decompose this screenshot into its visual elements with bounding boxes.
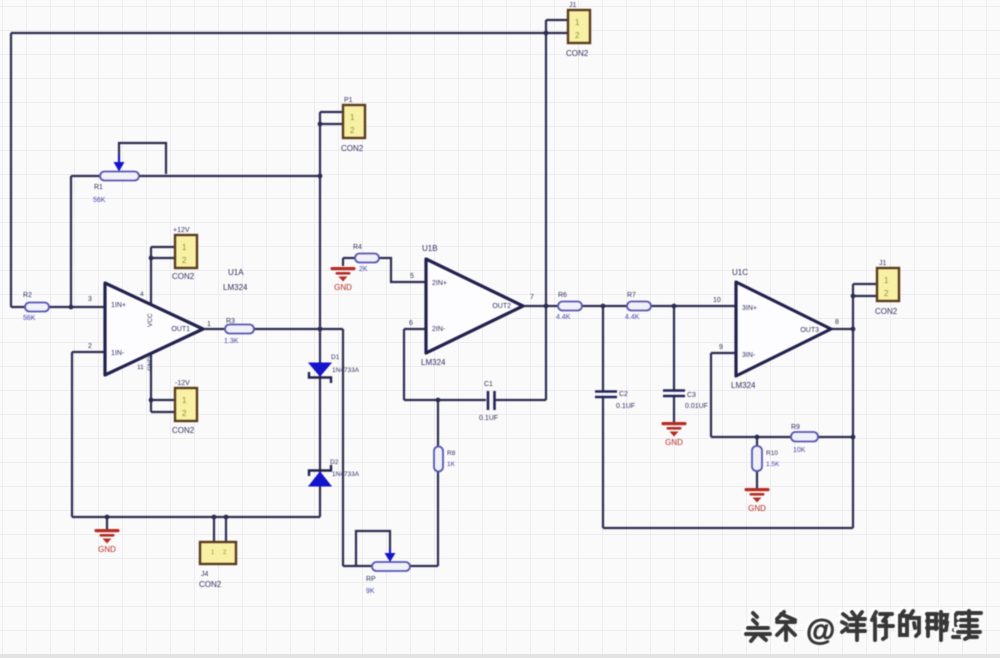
svg-text:@: @ [806,614,835,647]
junction -12V pin1 [149,398,154,403]
wire C2 bottom to rail [602,397,604,528]
svg-text:R4: R4 [353,244,362,251]
wire R4 right to U1B pin5 [379,258,426,282]
wire long vertical J1top to feedback [545,20,547,400]
svg-text:CON2: CON2 [199,580,222,589]
svg-text:6: 6 [409,320,413,327]
wire pot R1 left terminal [71,175,100,177]
svg-text:4.4K: 4.4K [556,314,571,321]
svg-text:R1: R1 [94,184,103,191]
wire U1B feedback bottom to C1 [404,399,486,401]
wire P1 connector pin2 [320,123,343,125]
svg-text:+12V: +12V [173,227,190,234]
svg-text:1: 1 [207,321,211,328]
svg-text:1IN+: 1IN+ [111,302,126,309]
op-amp U1C LM324 [713,268,839,390]
svg-text:CON2: CON2 [341,144,364,153]
svg-text:3IN-: 3IN- [742,352,756,359]
connector P2 +12V CON2 [172,227,197,281]
svg-text:4.4K: 4.4K [625,314,640,321]
svg-text:OUT1: OUT1 [171,326,190,333]
junction R10 / feedback [755,435,760,440]
svg-text:1: 1 [182,396,187,405]
svg-text:J4: J4 [201,571,209,578]
svg-text:GND: GND [665,438,683,447]
svg-text:OUT2: OUT2 [492,303,511,310]
diode D2 1N4733A zener [309,459,360,486]
op-amp U1A LM324 [88,268,248,375]
svg-text:8: 8 [835,319,839,326]
svg-text:VCC: VCC [147,313,154,327]
svg-text:C1: C1 [484,381,493,388]
wire gnd stem left [106,517,108,529]
svg-text:3: 3 [88,296,92,303]
svg-text:3IN+: 3IN+ [742,305,757,312]
svg-text:R3: R3 [226,318,235,325]
junction J4 pin2 [224,515,229,520]
svg-text:R7: R7 [627,292,636,299]
svg-text:1: 1 [884,276,889,285]
wire C3 branch down [673,306,675,390]
svg-text:LM324: LM324 [223,283,248,292]
wire J1 right connector pin1 [853,283,877,285]
svg-text:R8: R8 [447,450,456,457]
wire J1 right connector pin2 [853,295,877,297]
svg-text:OUT3: OUT3 [800,327,819,334]
junction top rail / J1 pins [544,31,549,36]
wire GND to R4 left [343,258,355,266]
svg-text:D2: D2 [330,459,339,466]
wire R10 top stem [756,437,758,446]
ground below R10 [745,488,770,513]
wire vertical RP to feedback node [437,400,439,566]
svg-text:1K: 1K [447,461,456,468]
junction R7-U1C / C3 [672,304,677,309]
wire U1A pin11 to -12V [150,354,152,412]
op-amp U1B LM324 [409,244,534,367]
svg-text:-12V: -12V [175,380,190,387]
svg-text:D1: D1 [331,354,340,361]
resistor R7 4.4K [625,292,651,321]
wire R3 node to vertical branch [320,328,343,330]
wire RP wiper loop [356,531,390,566]
svg-text:2: 2 [575,31,580,40]
svg-text:J1: J1 [569,2,577,9]
svg-text:1: 1 [350,113,355,122]
resistor R2 56K input [23,292,49,322]
wire U1C feedback bottom through R9 [711,436,853,438]
svg-text:9K: 9K [366,588,375,595]
wire node A vertical from pot left to pin3 net [70,176,72,307]
resistor R9 10K [791,424,818,454]
wire U1C feedback left down [710,353,712,437]
wire output vertical to J1 [852,284,854,528]
wire +12V supply to U1A pin4 [150,247,152,304]
svg-text:J1: J1 [879,260,887,267]
wire bottom rail left section [72,516,320,518]
wire RP right terminal [410,565,438,567]
wire P1 connector pin1 [320,111,343,113]
svg-text:56K: 56K [93,197,106,204]
svg-text:RP: RP [366,576,376,583]
svg-text:2: 2 [350,126,355,135]
svg-text:R9: R9 [791,424,800,431]
wire connector J4 pin1 stem [213,517,215,543]
svg-text:GND: GND [147,356,154,371]
svg-text:1.3K: 1.3K [224,338,239,345]
svg-text:U1B: U1B [422,244,438,253]
connector J1 CON2 output [875,260,899,316]
svg-text:2IN-: 2IN- [432,326,446,333]
junction P1 pins [318,122,323,127]
potentiometer R1 56K [93,155,139,204]
junction R3 output node [318,327,323,332]
wire pot R1 right terminal to node B [139,175,320,177]
wire U1B feedback left down [403,329,405,400]
wire connector J4 pin2 stem [225,517,227,543]
connector J2 CON2 top [566,2,590,58]
svg-text:GND: GND [334,283,352,292]
svg-text:U1A: U1A [228,268,244,277]
connector P1 CON2 [341,97,365,153]
capacitor C1 0.1UF [479,381,498,422]
svg-text:0.1UF: 0.1UF [616,403,635,410]
svg-text:10: 10 [713,297,721,304]
junction R6-R7 / C2 [601,304,606,309]
svg-text:C3: C3 [687,392,696,399]
svg-text:1: 1 [182,243,187,252]
wire C2 branch down [602,306,604,391]
wire U1A output through R3 [203,328,320,330]
svg-text:2: 2 [88,343,92,350]
svg-text:56K: 56K [23,315,36,322]
wire +12V connector pin2 [151,257,175,259]
watermark text 头条 @洋仔的那些事 [744,609,981,647]
junction +12V pin2 [149,256,154,261]
wire -12V connector pin1 [151,399,175,401]
resistor R4 2K [353,244,379,273]
wire C1 to output node [495,399,546,401]
wire pot R1 wiper loop [119,143,166,174]
wire -12V connector pin2 [151,411,175,413]
wire U1A pin2 stub [72,351,105,353]
wire outer feedback loop left side [10,33,12,307]
junction pot net / P1 net [318,174,323,179]
wire U1B pin6 stub [404,328,426,330]
svg-text:GND: GND [98,545,116,554]
wire RP left terminal [343,565,372,567]
svg-text:GND: GND [748,504,766,513]
wire bottom rail right section [603,527,853,529]
resistor R8 1K [434,447,456,472]
resistor R10 1.5K [752,446,780,471]
capacitor C2 0.1UF [595,391,635,410]
wire vertical branch to RP [342,329,344,566]
wire U1C output [831,328,853,330]
wire top connector pin1 [546,19,568,21]
svg-text:CON2: CON2 [875,307,898,316]
svg-text:R6: R6 [558,292,567,299]
bottom gray edge [0,654,1000,658]
svg-text:11: 11 [137,364,144,371]
svg-text:1.5K: 1.5K [766,461,780,468]
ground near R4 [331,267,356,292]
svg-text:2IN+: 2IN+ [432,280,447,287]
svg-text:2: 2 [884,289,889,298]
svg-text:1IN-: 1IN- [111,350,125,357]
svg-text:2: 2 [182,409,187,418]
svg-text:C2: C2 [619,391,628,398]
svg-text:U1C: U1C [732,268,748,277]
svg-text:1N4733A: 1N4733A [332,367,360,374]
svg-text:4: 4 [140,291,144,298]
wire input to U1A pin3 [11,306,105,308]
svg-text:LM324: LM324 [731,381,756,390]
svg-text:2: 2 [182,256,187,265]
ground bottom left [95,529,120,554]
svg-text:1: 1 [575,18,580,27]
capacitor C3 0.01UF [663,391,708,411]
resistor R3 1.3K [224,318,254,345]
wire outer feedback loop top rail [11,32,546,34]
junction gnd stem [105,515,110,520]
svg-text:1N4733A: 1N4733A [332,471,360,478]
svg-text:0.01UF: 0.01UF [685,403,708,410]
svg-text:9: 9 [719,344,723,351]
wire C3 to GND stem [673,396,675,422]
svg-text:CON2: CON2 [566,49,589,58]
svg-text:LM324: LM324 [421,358,446,367]
junction J4 pin1 [212,515,217,520]
junction feedback right [851,435,856,440]
potentiometer RP 9K [366,548,410,595]
wire R10 bottom stem to GND [756,471,758,488]
junction node A / pin3 [69,305,74,310]
junction U1B output / long vertical [544,304,549,309]
svg-text:CON2: CON2 [172,426,195,435]
svg-text:7: 7 [530,294,534,301]
junction U1C output [851,327,856,332]
resistor R6 4.4K [556,292,582,321]
svg-text:R10: R10 [766,450,778,457]
wire U1B output through R6 R7 to U1C pin10 [523,305,736,307]
svg-text:2K: 2K [359,266,368,273]
svg-text:P1: P1 [344,97,353,104]
svg-text:0.1UF: 0.1UF [479,415,498,422]
wire U1C pin9 stub [711,352,736,354]
diode D1 1N4733A zener [309,354,360,383]
wire left side down from pin2 [71,352,73,517]
svg-text:CON2: CON2 [172,272,195,281]
connector J4 CON2 bottom [199,542,236,589]
wire vertical net P1/diodes [319,112,321,517]
junction feedback / RP branch [436,398,441,403]
svg-text:10K: 10K [793,447,806,454]
junction J1 right pins [851,294,856,299]
svg-text:5: 5 [410,273,414,280]
svg-text:R2: R2 [23,292,32,299]
connector P3 -12V CON2 [172,380,197,435]
wire top connector pin2 [546,32,568,34]
wire +12V connector pin1 [151,246,175,248]
ground below C3 [662,422,687,447]
